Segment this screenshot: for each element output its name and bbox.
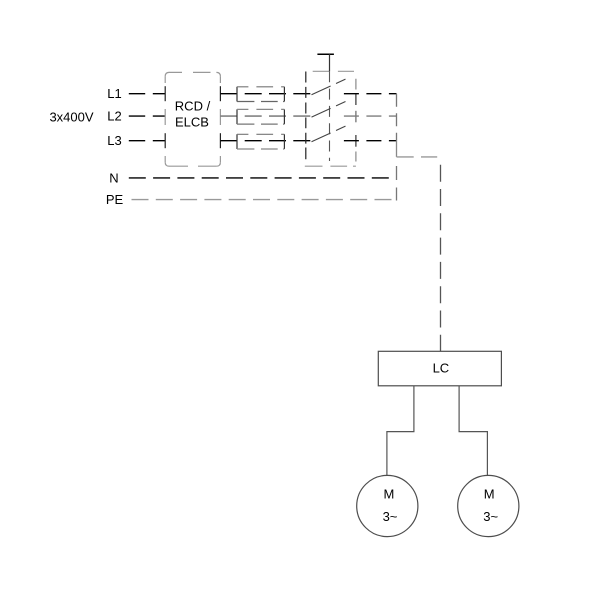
LC box	[378, 351, 501, 386]
wire N	[129, 177, 397, 179]
contactor handle T	[317, 53, 334, 55]
wire L1 lead-in	[129, 93, 165, 95]
svg-text:PE: PE	[106, 192, 124, 207]
svg-text:3~: 3~	[483, 509, 498, 524]
wire LC to motor 2	[459, 386, 487, 476]
svg-text:RCD /: RCD /	[175, 99, 211, 114]
RCD box terminal ticks	[165, 86, 220, 148]
svg-text:M: M	[484, 486, 495, 501]
wire L1 out	[344, 93, 397, 95]
switch blade 3	[312, 126, 346, 142]
svg-text:N: N	[109, 170, 118, 185]
switch blade 2	[312, 102, 346, 118]
svg-text:L3: L3	[107, 133, 121, 148]
fuse F3	[237, 134, 284, 149]
svg-text:LC: LC	[433, 361, 450, 376]
RCD/ELCB box U1	[165, 72, 220, 166]
svg-text:3x400V: 3x400V	[49, 110, 93, 125]
bus vertical lower	[396, 166, 398, 201]
bus jog horizontal	[397, 156, 438, 158]
handle stem	[329, 54, 331, 71]
bus corner segment	[396, 141, 398, 157]
svg-text:L2: L2	[107, 109, 121, 124]
svg-text:ELCB: ELCB	[175, 115, 209, 130]
drop wire to LC	[440, 165, 442, 352]
wire L3 lead-in	[129, 140, 165, 142]
wire L3 out	[344, 140, 397, 142]
wire PE	[132, 199, 397, 201]
motor M2 circle	[458, 475, 519, 536]
wire L1 mid (through fuse)	[220, 93, 310, 95]
wire L3 mid	[220, 140, 310, 142]
fuse F1	[237, 87, 284, 102]
wire L2 mid	[220, 115, 310, 117]
wire L2 lead-in	[129, 115, 165, 117]
actuator link	[329, 71, 331, 161]
bus vertical upper	[396, 94, 398, 141]
contactor box Q1	[305, 71, 356, 166]
fuse F2	[237, 109, 284, 124]
motor M1 circle	[357, 475, 418, 536]
wire LC to motor 1	[387, 386, 414, 476]
svg-text:3~: 3~	[383, 509, 398, 524]
wire L2 out	[344, 115, 397, 117]
switch blade 1	[312, 79, 346, 95]
svg-text:L1: L1	[107, 86, 121, 101]
svg-text:M: M	[383, 486, 394, 501]
